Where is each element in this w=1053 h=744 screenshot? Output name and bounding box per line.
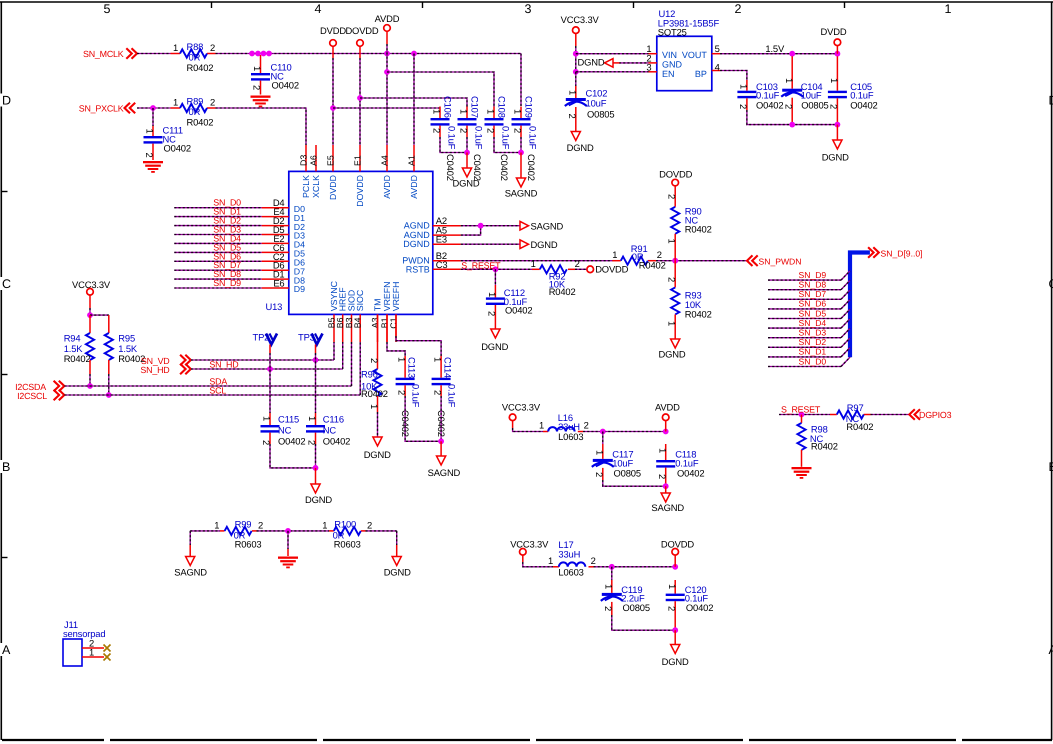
svg-text:A4: A4: [379, 155, 389, 166]
wire VCC3.3V to L16: [512, 421, 514, 428]
svg-text:C3: C3: [436, 259, 448, 270]
wire S_RESET net to R97: [779, 414, 830, 416]
U13 bottom pins: [333, 314, 335, 342]
svg-text:2: 2: [567, 114, 578, 119]
svg-text:1: 1: [307, 416, 318, 421]
wire SAGND-DGND tie left: [190, 530, 220, 532]
resistor R88 0R: [171, 53, 181, 55]
inductor L17 33uH: [553, 566, 559, 568]
svg-text:1: 1: [548, 555, 553, 566]
svg-text:DGND: DGND: [822, 152, 849, 163]
resistor R94 1.5K: [89, 315, 91, 333]
svg-text:O0805: O0805: [623, 602, 650, 613]
U13 right pin DGND E3: [433, 243, 461, 245]
svg-text:RSTB: RSTB: [406, 264, 430, 274]
svg-text:4: 4: [715, 61, 720, 72]
svg-text:2: 2: [829, 104, 840, 109]
svg-text:DGND: DGND: [531, 239, 558, 250]
resistor R91 0R: [612, 260, 621, 262]
svg-text:E3: E3: [436, 234, 447, 245]
svg-text:0.1uF: 0.1uF: [528, 126, 539, 150]
svg-text:1: 1: [397, 357, 408, 362]
ground for C110: [251, 96, 271, 98]
bus SN_D[9..0]: [850, 253, 870, 358]
wire SN_MCLK net: [137, 53, 171, 55]
ground for R98: [792, 467, 812, 469]
wire bus tap SN_D5: [768, 318, 841, 320]
svg-text:1: 1: [432, 109, 443, 114]
wire SN_D0-SN_D9 input wires with net labels: [174, 207, 261, 209]
ground arrow DGND for R100: [396, 545, 398, 557]
wire AVDD net: [386, 31, 388, 44]
svg-text:SN_D5: SN_D5: [799, 308, 827, 318]
svg-text:DGND: DGND: [403, 239, 430, 249]
wire TP2 to SN_HD and C115: [269, 345, 271, 354]
ground arrow DGND for C112: [491, 329, 500, 338]
svg-text:DVDD: DVDD: [328, 175, 338, 200]
svg-text:D: D: [2, 94, 11, 108]
svg-text:SN_HD: SN_HD: [209, 360, 238, 370]
svg-text:0R: 0R: [189, 106, 201, 117]
svg-text:R0402: R0402: [685, 309, 712, 320]
svg-text:3: 3: [525, 2, 532, 16]
svg-text:SN_D[9..0]: SN_D[9..0]: [881, 249, 923, 259]
wire SN_VD net to VSYNC and TP3: [191, 359, 334, 361]
svg-text:1.5V: 1.5V: [765, 43, 785, 54]
svg-text:AGND: AGND: [404, 221, 431, 231]
svg-text:5: 5: [715, 43, 720, 54]
svg-text:SN_D3: SN_D3: [799, 328, 827, 338]
U13 right pin PWDN B2: [433, 260, 461, 262]
svg-text:1: 1: [738, 84, 749, 89]
svg-text:0.1uF: 0.1uF: [447, 384, 458, 408]
svg-text:R0402: R0402: [187, 117, 214, 128]
svg-text:SN_HD: SN_HD: [140, 365, 169, 375]
resistor R96 10K on TM pin: [377, 314, 379, 369]
svg-text:DGND: DGND: [658, 349, 685, 360]
capacitor C109 0.1uF: [520, 107, 522, 119]
svg-text:2: 2: [575, 258, 580, 269]
svg-text:1: 1: [603, 584, 614, 589]
wire bus tap SN_D1: [768, 356, 841, 358]
svg-text:DOVDD: DOVDD: [659, 169, 692, 180]
svg-text:2: 2: [513, 128, 524, 133]
capacitor C117 10uF: [602, 432, 604, 445]
wire centre tie to ground: [257, 530, 330, 532]
svg-text:33uH: 33uH: [558, 548, 580, 559]
svg-text:A1: A1: [406, 155, 416, 166]
svg-text:VCC3.3V: VCC3.3V: [561, 14, 600, 25]
svg-text:2: 2: [657, 474, 668, 479]
svg-text:2: 2: [367, 519, 372, 530]
svg-text:2: 2: [210, 42, 215, 53]
U13 right pin RSTB C3: [433, 268, 461, 270]
svg-text:SN_D9: SN_D9: [213, 278, 241, 288]
ground arrow SAGND for C113/C114: [440, 441, 442, 456]
svg-text:1: 1: [214, 519, 219, 530]
svg-text:O0402: O0402: [505, 305, 532, 316]
resistor R95 1.5K: [108, 315, 110, 333]
svg-text:C0402: C0402: [499, 154, 510, 181]
svg-text:GND: GND: [662, 59, 683, 69]
ground arrow DGND for regulator caps: [836, 125, 838, 140]
capacitor C110 NC: [260, 55, 262, 73]
wire regulator cap ground rail: [747, 110, 838, 125]
capacitor C113 0.1uF: [404, 356, 406, 378]
svg-text:A6: A6: [308, 155, 318, 166]
capacitor C107 0.1uF: [466, 107, 468, 119]
wire DOVDD net: [359, 46, 361, 58]
wire bus tap SN_D7: [768, 298, 841, 300]
svg-text:1: 1: [594, 450, 605, 455]
svg-text:DVDD: DVDD: [320, 25, 346, 36]
svg-text:2: 2: [735, 2, 742, 16]
svg-text:NC: NC: [323, 424, 337, 435]
capacitor C120 0.1uF: [674, 580, 676, 594]
resistor R89 0R: [171, 107, 181, 109]
capacitor C103 0.1uF: [746, 80, 748, 91]
svg-text:1: 1: [173, 42, 178, 53]
svg-text:2: 2: [487, 311, 498, 316]
svg-text:VOUT: VOUT: [682, 50, 708, 60]
capacitor C108 0.1uF: [493, 107, 495, 119]
svg-text:3: 3: [646, 61, 651, 72]
U13 right pin AGND A5: [433, 234, 461, 236]
svg-text:C0402: C0402: [526, 154, 537, 181]
ground arrow DGND for C102: [571, 132, 580, 141]
U12 pin 5 VOUT: [712, 53, 720, 55]
svg-text:SN_D8: SN_D8: [799, 280, 827, 290]
svg-text:L0603: L0603: [558, 431, 583, 442]
svg-text:VCC3.3V: VCC3.3V: [510, 539, 549, 550]
svg-text:L0603: L0603: [558, 567, 583, 578]
svg-text:O0805: O0805: [801, 100, 828, 111]
svg-text:R0402: R0402: [811, 440, 838, 451]
svg-text:DGND: DGND: [481, 341, 508, 352]
svg-text:SN_D0: SN_D0: [799, 356, 827, 366]
svg-text:SIOC: SIOC: [355, 289, 365, 311]
svg-text:R0402: R0402: [361, 388, 388, 399]
ground DGND for C106/C107: [466, 153, 468, 169]
svg-text:0.1uF: 0.1uF: [501, 126, 512, 150]
ground arrow SAGND for AGND pins: [520, 221, 529, 230]
capacitor C111 NC: [152, 108, 154, 126]
capacitor C115 NC: [269, 413, 271, 425]
wire VREFH to C114: [395, 314, 397, 336]
wire AGND net to SAGND: [461, 225, 520, 227]
svg-text:DVDD: DVDD: [821, 26, 847, 37]
svg-text:R0603: R0603: [334, 538, 361, 549]
capacitor C102 10uF: [575, 72, 577, 86]
svg-text:VREFH: VREFH: [391, 281, 401, 311]
svg-text:I2CSCL: I2CSCL: [17, 391, 47, 401]
svg-text:1: 1: [567, 90, 578, 95]
svg-text:1: 1: [145, 129, 156, 134]
svg-text:2: 2: [210, 97, 215, 108]
svg-text:1: 1: [612, 249, 617, 260]
svg-text:S_RESET: S_RESET: [781, 405, 821, 415]
wire VCC3.3V to VIN/EN: [575, 34, 577, 47]
resistor R99 0R: [220, 530, 225, 532]
svg-text:1: 1: [784, 78, 795, 83]
svg-text:O0402: O0402: [278, 435, 305, 446]
svg-text:SCL: SCL: [209, 386, 226, 396]
svg-text:C106: C106: [443, 96, 454, 118]
svg-text:TM: TM: [372, 299, 382, 312]
svg-text:DGND: DGND: [577, 56, 604, 67]
svg-text:DGPIO3: DGPIO3: [919, 410, 952, 420]
svg-text:AVDD: AVDD: [409, 175, 419, 199]
svg-text:AVDD: AVDD: [382, 175, 392, 199]
wire bus tap SN_D6: [768, 308, 841, 310]
resistor R93 10K: [674, 261, 676, 288]
svg-text:10uF: 10uF: [586, 98, 607, 109]
svg-text:2: 2: [667, 277, 678, 282]
svg-text:SN_D2: SN_D2: [799, 337, 827, 347]
port DGPIO3: [909, 409, 915, 420]
capacitor C104 10uF: [791, 56, 793, 88]
capacitor C119 2.2uF: [611, 567, 613, 580]
U13 left data pins D0-D9: [262, 207, 289, 209]
wire AVDD pin A1 drop: [413, 54, 415, 146]
svg-text:1: 1: [252, 66, 263, 71]
ground arrow DGND for C119/C120: [674, 630, 676, 644]
wire bus tap SN_D4: [768, 327, 841, 329]
svg-text:2: 2: [459, 128, 470, 133]
svg-text:R96: R96: [361, 368, 378, 379]
svg-text:1: 1: [262, 416, 273, 421]
svg-text:1: 1: [322, 519, 327, 530]
wire L17 output DOVDD net: [594, 566, 676, 568]
svg-text:R0402: R0402: [187, 62, 214, 73]
svg-text:NC: NC: [278, 424, 292, 435]
J11 pin 2: [82, 647, 104, 649]
U12 pin 3 EN: [649, 71, 657, 73]
ground at R99/R100 centre: [287, 549, 289, 556]
svg-text:O0402: O0402: [686, 602, 713, 613]
power symbol DOVDD at R92: [587, 266, 594, 273]
U13 top pin stubs: [305, 145, 307, 171]
svg-text:DOVDD: DOVDD: [595, 264, 628, 275]
svg-text:SN_MCLK: SN_MCLK: [83, 49, 124, 59]
svg-text:1: 1: [486, 109, 497, 114]
svg-text:0.1uF: 0.1uF: [411, 384, 422, 408]
ground arrow DGND at U12 pin2: [605, 59, 614, 68]
svg-text:2: 2: [369, 358, 380, 363]
svg-text:R0402: R0402: [549, 286, 576, 297]
svg-text:C114: C114: [443, 357, 454, 378]
svg-text:B4: B4: [353, 317, 363, 328]
ground arrow DGND for C115/C116: [315, 468, 317, 484]
svg-text:4: 4: [315, 2, 322, 16]
svg-text:1: 1: [513, 109, 524, 114]
svg-text:DOVDD: DOVDD: [345, 25, 378, 36]
wire VREFN to C113: [386, 314, 388, 342]
ground for C111: [143, 161, 163, 163]
wire R97 to DGPIO3: [871, 414, 909, 416]
wire bus tap SN_D9: [768, 279, 841, 281]
svg-text:SN_D6: SN_D6: [799, 299, 827, 309]
ground arrow SAGND for C117/C118: [665, 486, 667, 493]
resistor R92 10K pull to DOVDD: [532, 268, 540, 270]
svg-text:DOVDD: DOVDD: [355, 175, 365, 207]
svg-text:SAGND: SAGND: [531, 220, 564, 231]
svg-text:C1: C1: [388, 317, 398, 328]
svg-text:O0805: O0805: [587, 108, 614, 119]
svg-text:EN: EN: [662, 69, 675, 79]
resistor R97 NC: [830, 414, 837, 416]
svg-text:C108: C108: [497, 96, 508, 118]
svg-text:1: 1: [945, 2, 952, 16]
resistor R100 0R: [329, 530, 334, 532]
svg-text:S_RESET: S_RESET: [461, 260, 501, 270]
svg-text:U13: U13: [266, 301, 283, 312]
svg-text:2: 2: [584, 420, 589, 431]
U12 pin 4 BP: [712, 70, 720, 72]
svg-text:C: C: [2, 277, 11, 291]
svg-text:E6: E6: [273, 278, 284, 289]
U13 right pin AGND A2: [433, 225, 461, 227]
wire DVDD net: [332, 46, 334, 58]
svg-text:R0402: R0402: [64, 353, 91, 364]
svg-text:1: 1: [173, 97, 178, 108]
capacitor C105 0.1uF: [836, 56, 838, 90]
svg-text:R0402: R0402: [639, 260, 666, 271]
svg-text:2: 2: [144, 153, 155, 158]
svg-text:0.1uF: 0.1uF: [447, 126, 458, 150]
svg-text:SOT25: SOT25: [658, 26, 687, 37]
svg-text:SN_D9: SN_D9: [799, 270, 827, 280]
wire bus tap SN_D0: [768, 366, 841, 368]
svg-text:O0402: O0402: [323, 435, 350, 446]
svg-text:2: 2: [433, 390, 444, 395]
op-amp U13 sensor IC body: [289, 171, 433, 314]
wire SAGND-DGND tie right: [366, 530, 397, 532]
svg-text:R94: R94: [64, 332, 81, 343]
wire C108-C109 ground join: [494, 137, 521, 153]
svg-text:R0402: R0402: [846, 421, 873, 432]
svg-text:VIN: VIN: [662, 50, 677, 60]
resistor R98 NC: [801, 415, 803, 423]
U12 pin 1 VIN: [649, 53, 657, 55]
svg-text:DOVDD: DOVDD: [661, 539, 694, 550]
svg-text:SN_D1: SN_D1: [799, 347, 827, 357]
wire PWDN net: [461, 260, 613, 262]
wire VCC3.3V to R94/R95: [89, 295, 91, 308]
svg-text:5: 5: [104, 2, 111, 16]
op-amp U12 LP3981 regulator body: [657, 36, 712, 90]
svg-text:1: 1: [459, 109, 470, 114]
svg-text:O0402: O0402: [850, 100, 877, 111]
J11 pin 1: [82, 656, 104, 658]
svg-text:AVDD: AVDD: [655, 402, 680, 413]
svg-text:XCLK: XCLK: [311, 175, 321, 198]
svg-text:SAGND: SAGND: [651, 502, 684, 513]
no-connect X on J11 pin 1: [104, 654, 111, 661]
svg-text:E1: E1: [352, 155, 362, 166]
svg-text:2: 2: [666, 606, 677, 611]
svg-text:O0402: O0402: [272, 80, 299, 91]
capacitor C112 0.1uF: [494, 269, 496, 285]
svg-text:2: 2: [258, 519, 263, 530]
capacitor C114 0.1uF: [440, 356, 442, 378]
svg-text:C115: C115: [278, 413, 299, 424]
svg-text:SN_PXCLK: SN_PXCLK: [79, 104, 124, 114]
wire SDA net: [65, 385, 352, 387]
svg-text:DGND: DGND: [662, 656, 689, 667]
ground arrow DGND for R96: [373, 437, 382, 446]
inductor L16 33uH: [543, 431, 548, 433]
svg-text:1: 1: [369, 404, 380, 409]
svg-text:2: 2: [667, 194, 678, 199]
svg-text:sensorpad: sensorpad: [63, 628, 105, 639]
svg-text:1: 1: [667, 321, 678, 326]
wire BP to C103: [720, 71, 747, 81]
svg-text:2: 2: [603, 606, 614, 611]
svg-text:DGND: DGND: [567, 142, 594, 153]
svg-text:BP: BP: [695, 69, 707, 79]
svg-text:2: 2: [397, 390, 408, 395]
svg-text:E5: E5: [325, 155, 335, 166]
svg-text:2: 2: [432, 128, 443, 133]
svg-text:C109: C109: [524, 96, 535, 118]
svg-text:2: 2: [783, 104, 794, 109]
svg-text:SAGND: SAGND: [505, 188, 538, 199]
capacitor C106 0.1uF: [439, 107, 441, 119]
svg-text:1: 1: [89, 647, 94, 658]
svg-text:2: 2: [738, 104, 749, 109]
svg-text:C116: C116: [323, 413, 344, 424]
ground arrow DGND for pin E3: [520, 240, 529, 249]
svg-text:O0805: O0805: [614, 468, 641, 479]
svg-text:DGND: DGND: [452, 178, 479, 189]
svg-text:1: 1: [487, 292, 498, 297]
svg-text:DGND: DGND: [305, 494, 332, 505]
svg-text:2: 2: [486, 128, 497, 133]
svg-text:C107: C107: [470, 96, 481, 118]
svg-text:VCC3.3V: VCC3.3V: [502, 402, 541, 413]
wire DGND net from pin E3: [461, 243, 520, 245]
wire bus tap SN_D2: [768, 346, 841, 348]
svg-text:R0402: R0402: [685, 224, 712, 235]
wire TP3 to SN_VD and C116: [315, 345, 317, 354]
wire VCC3.3V to L17: [522, 555, 524, 562]
svg-text:DGND: DGND: [384, 567, 411, 578]
svg-text:C113: C113: [407, 357, 418, 378]
svg-text:PCLK: PCLK: [301, 175, 311, 198]
wire bus tap SN_D3: [768, 337, 841, 339]
svg-text:1: 1: [531, 258, 536, 269]
capacitor C118 0.1uF: [665, 444, 667, 460]
port SN_PWDN: [747, 255, 753, 266]
svg-text:D: D: [1049, 94, 1053, 108]
wire RSTB / S_RESET net: [461, 268, 532, 270]
capacitor C116 NC: [315, 413, 317, 425]
wire 1.5V output net: [720, 53, 837, 55]
svg-text:0.1uF: 0.1uF: [474, 126, 485, 150]
wire bus tap SN_D8: [768, 289, 841, 291]
svg-text:SN_PWDN: SN_PWDN: [759, 256, 802, 266]
resistor R90 NC: [674, 186, 676, 207]
svg-text:1: 1: [539, 420, 544, 431]
svg-text:B: B: [1049, 460, 1053, 474]
svg-text:1: 1: [433, 357, 444, 362]
svg-text:AVDD: AVDD: [375, 13, 400, 24]
wire C106-C107 ground join: [440, 137, 467, 153]
svg-text:D3: D3: [298, 155, 308, 166]
svg-text:R0603: R0603: [235, 538, 262, 549]
svg-text:O0402: O0402: [756, 100, 783, 111]
